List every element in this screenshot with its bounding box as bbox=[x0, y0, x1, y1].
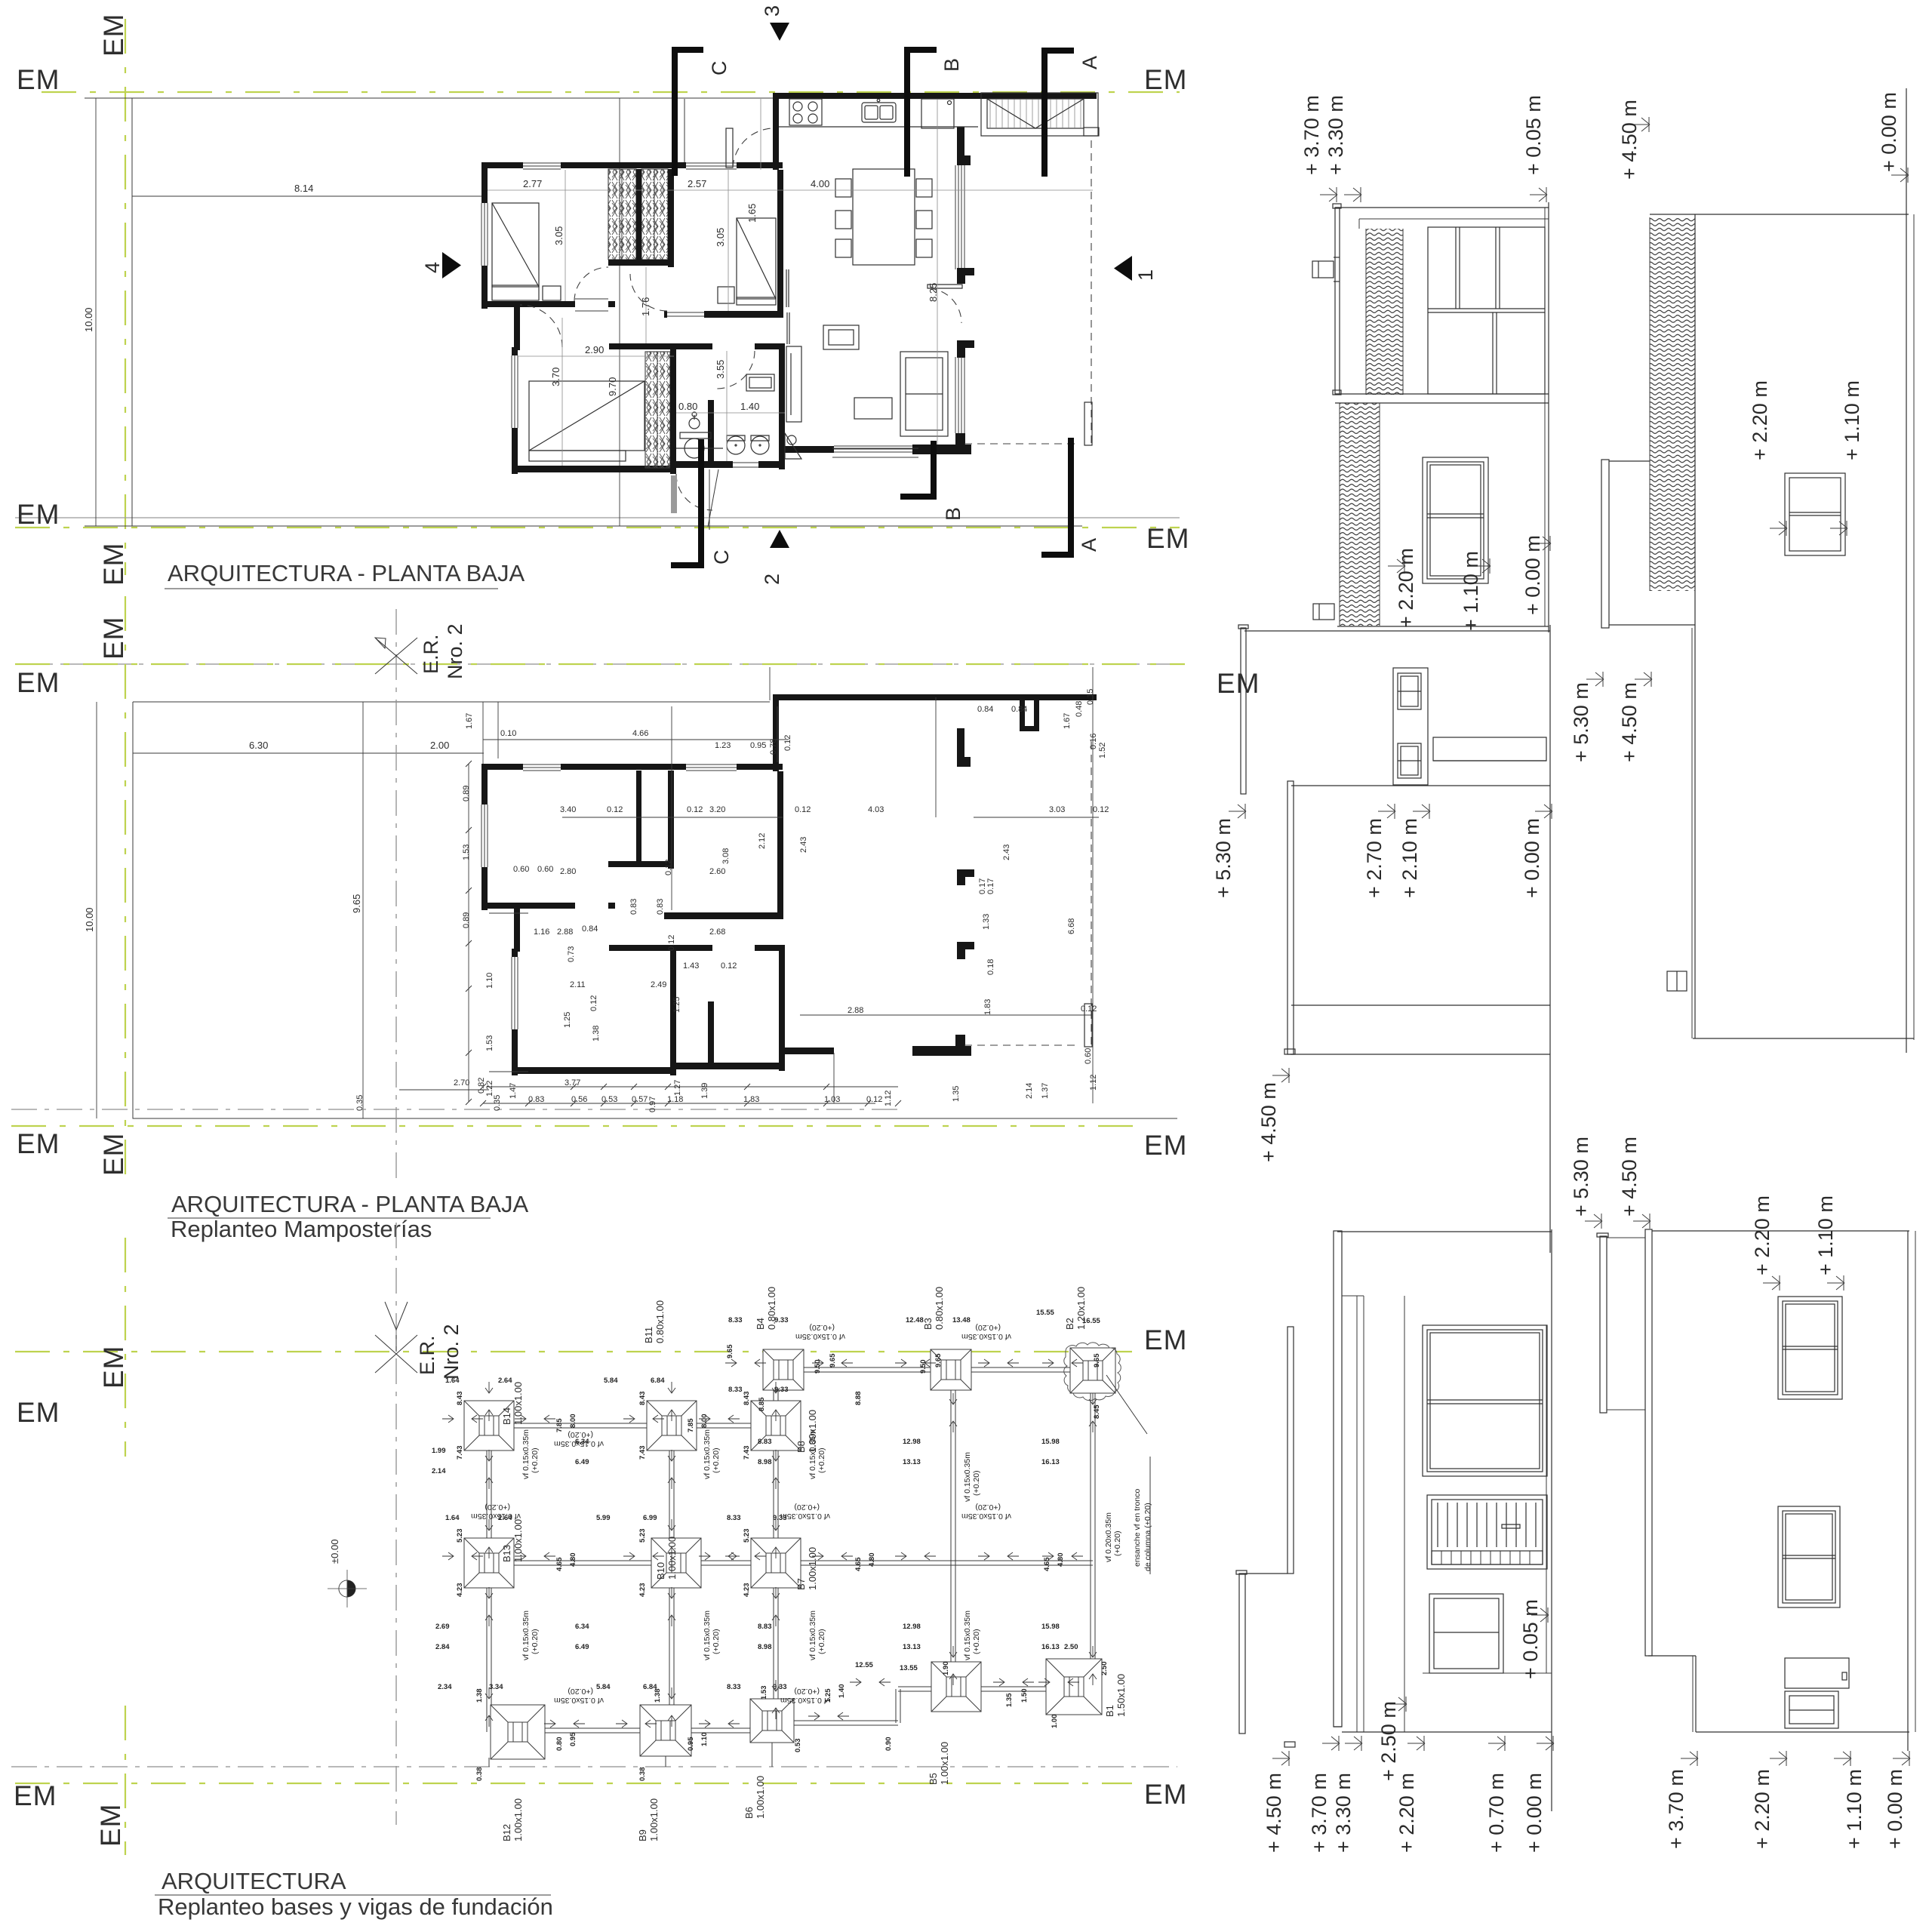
svg-text:+ 2.50 m: + 2.50 m bbox=[1377, 1701, 1400, 1781]
svg-text:8.14: 8.14 bbox=[294, 183, 313, 194]
level markers top bbox=[1320, 187, 1337, 202]
svg-text:9.65: 9.65 bbox=[934, 1353, 943, 1367]
footing B10 bbox=[651, 1538, 701, 1588]
deck dashed boundary bbox=[964, 443, 1079, 445]
upper window bbox=[1778, 1297, 1842, 1399]
svg-text:8.98: 8.98 bbox=[758, 1458, 772, 1466]
near end wall bbox=[1244, 630, 1550, 632]
bedroom3 top wall bbox=[609, 343, 676, 349]
laundry counter top-right bbox=[981, 93, 1099, 136]
svg-text:2.43: 2.43 bbox=[799, 837, 808, 853]
svg-text:1.00x1.00: 1.00x1.00 bbox=[666, 1537, 678, 1580]
svg-text:+ 0.05 m: + 0.05 m bbox=[1522, 95, 1545, 175]
dim 10.00 vertical bbox=[95, 98, 97, 526]
stacked windows bbox=[1393, 668, 1428, 785]
svg-text:8.83: 8.83 bbox=[758, 1623, 772, 1631]
kitchen door leaf + arc bbox=[726, 128, 773, 168]
svg-text:2.14: 2.14 bbox=[432, 1467, 446, 1475]
svg-text:4.80: 4.80 bbox=[569, 1553, 577, 1567]
svg-text:1.27: 1.27 bbox=[673, 1080, 682, 1096]
svg-text:B13: B13 bbox=[501, 1545, 512, 1562]
svg-text:EM: EM bbox=[95, 1804, 126, 1847]
svg-text:+ 4.50 m: + 4.50 m bbox=[1618, 682, 1641, 762]
svg-text:0.12: 0.12 bbox=[589, 995, 598, 1011]
svg-text:13.55: 13.55 bbox=[900, 1664, 918, 1672]
svg-text:B7: B7 bbox=[795, 1578, 807, 1590]
section 3 arrow bbox=[761, 5, 789, 41]
svg-text:8.88: 8.88 bbox=[854, 1392, 863, 1406]
svg-text:13.13: 13.13 bbox=[903, 1643, 921, 1651]
svg-text:7.43: 7.43 bbox=[638, 1446, 647, 1460]
svg-text:A: A bbox=[1078, 538, 1100, 552]
svg-text:8.43: 8.43 bbox=[743, 1392, 751, 1406]
svg-text:+ 3.30 m: + 3.30 m bbox=[1332, 1773, 1355, 1853]
EM line plan 3 top bbox=[15, 1324, 1188, 1428]
E.R. axis vertical bbox=[395, 609, 397, 1182]
svg-text:±0.00: ±0.00 bbox=[329, 1540, 340, 1564]
wardrobe bed3 bbox=[645, 352, 670, 468]
svg-text:+ 5.30 m: + 5.30 m bbox=[1570, 1137, 1592, 1217]
bed2 bottom wall bbox=[664, 311, 783, 318]
svg-text:C: C bbox=[708, 61, 731, 76]
living bottom wall bbox=[912, 445, 971, 454]
svg-text:2.90: 2.90 bbox=[585, 344, 604, 355]
svg-text:4.00: 4.00 bbox=[811, 178, 829, 189]
svg-text:E.R.: E.R. bbox=[416, 1335, 438, 1375]
E.R. Nro 2 cross bbox=[375, 638, 417, 674]
svg-text:0.83: 0.83 bbox=[629, 899, 638, 915]
svg-text:vf 0.15x0.35m: vf 0.15x0.35m bbox=[554, 1696, 604, 1705]
svg-text:EM: EM bbox=[17, 499, 60, 530]
svg-text:+ 4.50 m: + 4.50 m bbox=[1618, 100, 1641, 180]
far end wall bbox=[1693, 1038, 1914, 1039]
svg-text:0.89: 0.89 bbox=[462, 912, 471, 928]
E.R. axis vertical bbox=[395, 1223, 397, 1825]
levels bottom bbox=[1681, 1751, 1698, 1766]
svg-text:1.33: 1.33 bbox=[982, 914, 991, 930]
svg-text:1.40: 1.40 bbox=[838, 1684, 846, 1699]
window 2 (blind) bbox=[1427, 1495, 1547, 1569]
svg-text:vf 0.15x0.35m: vf 0.15x0.35m bbox=[961, 1512, 1011, 1521]
svg-text:+ 0.05 m: + 0.05 m bbox=[1519, 1599, 1542, 1679]
+5.30 parapet bbox=[1600, 1236, 1607, 1413]
roof edge single-story bbox=[1694, 214, 1696, 1038]
svg-text:vf 0.15x0.35m: vf 0.15x0.35m bbox=[961, 1332, 1011, 1341]
svg-text:ARQUITECTURA: ARQUITECTURA bbox=[162, 1868, 346, 1894]
roof +3.70 bbox=[1334, 1231, 1342, 1727]
svg-text:+ 2.20 m: + 2.20 m bbox=[1395, 1773, 1418, 1853]
svg-text:1.00x1.00: 1.00x1.00 bbox=[807, 1547, 818, 1590]
svg-text:+ 3.70 m: + 3.70 m bbox=[1665, 1769, 1687, 1849]
svg-text:0.12: 0.12 bbox=[607, 805, 623, 814]
svg-text:4.80: 4.80 bbox=[868, 1553, 876, 1567]
side wall bottom edge bbox=[1337, 626, 1549, 627]
svg-text:2.11: 2.11 bbox=[570, 980, 586, 989]
dining table bbox=[835, 169, 932, 265]
svg-text:+ 0.70 m: + 0.70 m bbox=[1485, 1773, 1508, 1853]
svg-text:+ 1.10 m: + 1.10 m bbox=[1460, 551, 1482, 631]
svg-text:vf 0.15x0.35m: vf 0.15x0.35m bbox=[963, 1452, 972, 1502]
svg-text:0.97: 0.97 bbox=[648, 1097, 657, 1112]
svg-text:8.85: 8.85 bbox=[758, 1397, 766, 1411]
svg-text:9.65: 9.65 bbox=[351, 894, 362, 913]
svg-text:B10: B10 bbox=[655, 1562, 666, 1580]
svg-text:1: 1 bbox=[1134, 269, 1157, 281]
svg-text:0.35: 0.35 bbox=[493, 1095, 502, 1111]
footing B14 bbox=[464, 1401, 514, 1451]
svg-text:+ 2.20 m: + 2.20 m bbox=[1751, 1195, 1774, 1275]
footing B8 bbox=[751, 1401, 801, 1451]
svg-text:16.55: 16.55 bbox=[1082, 1317, 1100, 1325]
near end wall bbox=[1652, 1230, 1909, 1232]
svg-text:EM: EM bbox=[1144, 1779, 1188, 1810]
svg-text:8.45: 8.45 bbox=[1093, 1404, 1101, 1419]
svg-text:vf 0.15x0.35m: vf 0.15x0.35m bbox=[471, 1512, 521, 1521]
svg-text:+ 2.70 m: + 2.70 m bbox=[1363, 818, 1386, 898]
bed 2 bbox=[718, 218, 776, 305]
svg-text:B6: B6 bbox=[743, 1807, 755, 1819]
footing B7 bbox=[751, 1538, 801, 1588]
canopy bar bbox=[1433, 737, 1546, 761]
dim 10.00 vertical bbox=[96, 702, 97, 1118]
end wall bbox=[1650, 214, 1909, 215]
svg-text:0.80: 0.80 bbox=[678, 401, 697, 412]
svg-text:0.82: 0.82 bbox=[477, 1078, 486, 1094]
svg-text:0.56: 0.56 bbox=[571, 1095, 587, 1104]
svg-text:0.84: 0.84 bbox=[1011, 705, 1027, 714]
svg-text:0.84: 0.84 bbox=[582, 924, 598, 934]
foundation vigas bbox=[489, 1423, 776, 1428]
bedroom3 left wall bbox=[512, 347, 518, 474]
roof slab inner line bbox=[1359, 218, 1549, 220]
svg-text:Replanteo Mamposterías: Replanteo Mamposterías bbox=[171, 1216, 432, 1242]
svg-text:3.03: 3.03 bbox=[1049, 805, 1065, 814]
EM line plan 2 bottom bbox=[11, 1126, 1188, 1176]
far end wall bbox=[1291, 1054, 1550, 1055]
svg-text:+ 4.50 m: + 4.50 m bbox=[1257, 1082, 1280, 1162]
svg-text:(+0.20): (+0.20) bbox=[568, 1687, 593, 1696]
svg-text:2.57: 2.57 bbox=[688, 178, 706, 189]
svg-text:1.12: 1.12 bbox=[1089, 1075, 1098, 1091]
svg-text:(+0.20): (+0.20) bbox=[817, 1629, 826, 1654]
bed2 right wall bbox=[777, 170, 783, 318]
svg-text:+ 2.10 m: + 2.10 m bbox=[1398, 818, 1421, 898]
far end wall bbox=[1696, 1731, 1909, 1733]
svg-text:2: 2 bbox=[761, 574, 783, 585]
svg-text:1.35: 1.35 bbox=[1005, 1693, 1014, 1707]
svg-text:+ 5.30 m: + 5.30 m bbox=[1212, 818, 1235, 898]
kitchen counter bbox=[779, 126, 978, 128]
svg-text:4: 4 bbox=[421, 262, 444, 273]
svg-text:B3: B3 bbox=[922, 1318, 934, 1330]
+4.50 roof bbox=[1645, 1229, 1652, 1656]
svg-text:0.12: 0.12 bbox=[783, 735, 792, 751]
svg-text:1.37: 1.37 bbox=[1041, 1083, 1050, 1099]
hall wall bed1 bottom bbox=[485, 301, 575, 307]
bed 1 bbox=[492, 203, 561, 300]
svg-text:vf 0.15x0.35m: vf 0.15x0.35m bbox=[521, 1611, 531, 1660]
svg-text:0.16: 0.16 bbox=[1089, 734, 1098, 749]
footing B13 bbox=[464, 1538, 514, 1588]
svg-text:1.12: 1.12 bbox=[884, 1091, 893, 1106]
svg-text:8.25: 8.25 bbox=[928, 283, 939, 302]
svg-text:1.40: 1.40 bbox=[740, 401, 759, 412]
svg-text:12.48: 12.48 bbox=[906, 1316, 924, 1324]
svg-text:6.99: 6.99 bbox=[643, 1514, 657, 1522]
svg-text:0.60: 0.60 bbox=[537, 865, 553, 874]
plan3 dim arrows bbox=[442, 1415, 454, 1423]
svg-text:0.73: 0.73 bbox=[567, 946, 576, 962]
svg-text:vf 0.15x0.35m: vf 0.15x0.35m bbox=[780, 1696, 830, 1705]
bath right wall bbox=[779, 343, 785, 469]
tall section edge bbox=[1291, 785, 1550, 786]
svg-text:0.12: 0.12 bbox=[687, 805, 703, 814]
svg-text:0.12: 0.12 bbox=[667, 935, 676, 951]
svg-text:1.38: 1.38 bbox=[654, 1689, 662, 1703]
svg-text:(+0.20): (+0.20) bbox=[975, 1503, 1001, 1512]
chimney bbox=[1667, 971, 1687, 991]
tv console bbox=[786, 346, 801, 422]
svg-text:2.68: 2.68 bbox=[709, 928, 725, 937]
floor +0.05 line bbox=[1546, 1325, 1547, 1673]
fridge bbox=[921, 99, 954, 128]
svg-text:13.13: 13.13 bbox=[903, 1458, 921, 1466]
near end wall bbox=[1337, 1231, 1552, 1232]
svg-text:+ 2.20 m: + 2.20 m bbox=[1751, 1769, 1774, 1849]
step wall hall-bed3 bbox=[514, 307, 520, 350]
axis line at house bottom bbox=[11, 1109, 898, 1110]
twin wc bbox=[727, 435, 769, 454]
svg-text:1.38: 1.38 bbox=[592, 1026, 601, 1041]
svg-text:6.84: 6.84 bbox=[651, 1377, 665, 1385]
corrugated band upper bbox=[1366, 229, 1403, 395]
svg-text:7.85: 7.85 bbox=[687, 1418, 695, 1432]
svg-text:Nro. 2: Nro. 2 bbox=[444, 623, 466, 679]
svg-text:vf 0.15x0.35m: vf 0.15x0.35m bbox=[703, 1429, 712, 1479]
svg-text:(+0.20): (+0.20) bbox=[485, 1503, 510, 1512]
window bedroom1 left bbox=[480, 203, 489, 266]
svg-text:1.25: 1.25 bbox=[672, 997, 681, 1013]
svg-text:0.18: 0.18 bbox=[986, 959, 995, 975]
sofa bbox=[900, 352, 948, 436]
svg-text:1.00x1.00: 1.00x1.00 bbox=[648, 1798, 660, 1841]
svg-text:6.68: 6.68 bbox=[1067, 918, 1076, 934]
svg-text:7.43: 7.43 bbox=[456, 1446, 464, 1460]
svg-text:EM: EM bbox=[17, 64, 60, 95]
EM line plan 3 bottom bbox=[14, 1779, 1188, 1847]
svg-text:2.70: 2.70 bbox=[454, 1078, 469, 1088]
svg-text:ensanche vf en tronco: ensanche vf en tronco bbox=[1133, 1489, 1142, 1567]
svg-text:9.65: 9.65 bbox=[726, 1344, 734, 1358]
svg-text:0.60: 0.60 bbox=[513, 865, 529, 874]
lot boundary bbox=[132, 98, 1082, 526]
+4.50 parapet bbox=[1287, 1327, 1294, 1574]
svg-text:1.83: 1.83 bbox=[983, 999, 992, 1015]
intermediate edge bbox=[1291, 1004, 1550, 1006]
footing B9 bbox=[640, 1705, 691, 1756]
svg-text:3.20: 3.20 bbox=[709, 805, 725, 814]
svg-text:+ 1.10 m: + 1.10 m bbox=[1843, 1769, 1866, 1849]
svg-text:0.95: 0.95 bbox=[750, 741, 766, 750]
svg-text:+ 4.50 m: + 4.50 m bbox=[1618, 1137, 1641, 1217]
svg-text:+ 1.10 m: + 1.10 m bbox=[1841, 380, 1863, 460]
footing B1 bbox=[1046, 1659, 1102, 1715]
svg-text:5.23: 5.23 bbox=[456, 1529, 464, 1543]
window bedroom3 left bbox=[510, 355, 520, 428]
svg-text:10.00: 10.00 bbox=[83, 307, 94, 332]
svg-text:B2: B2 bbox=[1064, 1318, 1075, 1330]
svg-text:0.17: 0.17 bbox=[986, 878, 995, 894]
svg-text:B1: B1 bbox=[1104, 1705, 1115, 1717]
svg-text:0.12: 0.12 bbox=[721, 961, 737, 971]
svg-text:4.23: 4.23 bbox=[638, 1583, 647, 1598]
+3.30 slab line bbox=[1357, 1296, 1364, 1732]
svg-text:EM: EM bbox=[1217, 668, 1260, 699]
svg-text:15.55: 15.55 bbox=[1036, 1309, 1054, 1317]
window 3 (small) bbox=[1429, 1594, 1503, 1673]
svg-text:0.80x1.00: 0.80x1.00 bbox=[934, 1287, 945, 1330]
svg-text:1.03: 1.03 bbox=[824, 1095, 840, 1104]
svg-text:1.99: 1.99 bbox=[432, 1447, 446, 1455]
svg-text:5.23: 5.23 bbox=[638, 1529, 647, 1543]
step to +3.70 bbox=[1648, 1655, 1696, 1657]
svg-text:4.23: 4.23 bbox=[743, 1583, 751, 1598]
stove bbox=[789, 99, 822, 125]
svg-text:0.15: 0.15 bbox=[1086, 689, 1095, 705]
roof +4.50 bbox=[1287, 781, 1294, 1054]
svg-text:1.50x1.00: 1.50x1.00 bbox=[1115, 1674, 1127, 1717]
svg-text:vf 0.20x0.35m: vf 0.20x0.35m bbox=[1104, 1512, 1113, 1562]
svg-text:1.47: 1.47 bbox=[509, 1083, 518, 1099]
svg-text:12.55: 12.55 bbox=[855, 1661, 873, 1669]
+5.30 parapet bbox=[1239, 1574, 1245, 1734]
svg-text:7.85: 7.85 bbox=[555, 1418, 564, 1432]
svg-text:12.98: 12.98 bbox=[903, 1623, 921, 1631]
bed 3 bbox=[529, 381, 645, 461]
svg-text:16.13: 16.13 bbox=[1041, 1643, 1060, 1651]
svg-text:1.83: 1.83 bbox=[743, 1095, 759, 1104]
svg-text:+ 3.70 m: + 3.70 m bbox=[1308, 1773, 1331, 1853]
shower drain circle bbox=[676, 438, 723, 458]
svg-text:EM: EM bbox=[98, 617, 129, 660]
dim 9.65 vertical bbox=[362, 702, 364, 1118]
svg-text:EM: EM bbox=[1144, 1324, 1188, 1355]
svg-text:6.30: 6.30 bbox=[249, 740, 268, 751]
svg-text:15.98: 15.98 bbox=[1041, 1623, 1060, 1631]
svg-text:0.78: 0.78 bbox=[769, 739, 778, 755]
svg-text:0.12: 0.12 bbox=[664, 860, 673, 875]
svg-text:B11: B11 bbox=[643, 1327, 654, 1343]
wardrobes bed1/bed2 bbox=[608, 169, 636, 260]
svg-text:9.65: 9.65 bbox=[829, 1353, 837, 1367]
svg-text:0.83: 0.83 bbox=[528, 1095, 544, 1104]
lot boundary bbox=[133, 702, 1177, 1118]
svg-text:+ 4.50 m: + 4.50 m bbox=[1263, 1773, 1285, 1853]
scupper upper bbox=[1312, 261, 1334, 278]
dims 6.30 / 2.00 bbox=[133, 752, 484, 754]
EM line plan 2 top bbox=[15, 617, 1260, 700]
svg-text:2.88: 2.88 bbox=[557, 928, 573, 937]
svg-text:3.34: 3.34 bbox=[489, 1683, 503, 1691]
svg-text:0.80: 0.80 bbox=[555, 1737, 564, 1752]
svg-text:1.53: 1.53 bbox=[485, 1035, 494, 1051]
window bbox=[1785, 473, 1845, 555]
svg-text:7.43: 7.43 bbox=[743, 1446, 751, 1460]
svg-text:Replanteo bases y vigas de fun: Replanteo bases y vigas de fundación bbox=[158, 1894, 553, 1920]
svg-text:12.98: 12.98 bbox=[903, 1438, 921, 1446]
section B top bbox=[904, 47, 963, 177]
plan1 room dimension lines bbox=[488, 99, 1093, 466]
svg-text:(+0.20): (+0.20) bbox=[794, 1503, 820, 1512]
svg-text:vf 0.15x0.35m: vf 0.15x0.35m bbox=[554, 1439, 604, 1448]
svg-text:0.57: 0.57 bbox=[632, 1095, 648, 1104]
svg-text:+ 0.00 m: + 0.00 m bbox=[1521, 818, 1543, 898]
svg-text:B4: B4 bbox=[755, 1318, 766, 1330]
svg-text:3.05: 3.05 bbox=[553, 226, 565, 245]
svg-text:EM: EM bbox=[17, 1397, 60, 1428]
svg-text:+ 2.20 m: + 2.20 m bbox=[1749, 380, 1771, 460]
svg-text:8.98: 8.98 bbox=[758, 1643, 772, 1651]
svg-text:EM: EM bbox=[1144, 64, 1188, 95]
svg-text:9.65: 9.65 bbox=[1093, 1353, 1101, 1367]
svg-text:4.80: 4.80 bbox=[1057, 1553, 1065, 1567]
footing B3 bbox=[931, 1349, 971, 1390]
svg-text:5.84: 5.84 bbox=[596, 1683, 611, 1691]
svg-text:1.16: 1.16 bbox=[534, 928, 549, 937]
svg-text:2.00: 2.00 bbox=[430, 740, 449, 751]
svg-text:1.65: 1.65 bbox=[746, 204, 758, 223]
svg-text:1.64: 1.64 bbox=[445, 1377, 460, 1385]
footing B11 bbox=[647, 1401, 697, 1451]
svg-text:vf 0.15x0.35m: vf 0.15x0.35m bbox=[808, 1429, 817, 1479]
svg-text:2.88: 2.88 bbox=[848, 1006, 863, 1015]
porch jog wall bbox=[773, 93, 779, 170]
scupper lower bbox=[1313, 604, 1334, 620]
svg-text:1.10: 1.10 bbox=[700, 1733, 709, 1747]
svg-text:(+0.20): (+0.20) bbox=[568, 1430, 593, 1439]
svg-text:1.90: 1.90 bbox=[942, 1662, 950, 1676]
svg-text:1.23: 1.23 bbox=[715, 741, 731, 750]
svg-text:(+0.20): (+0.20) bbox=[712, 1447, 721, 1473]
below-bath exterior door leaf bbox=[671, 475, 677, 513]
svg-text:0.53: 0.53 bbox=[794, 1739, 802, 1753]
svg-text:(+0.20): (+0.20) bbox=[712, 1629, 721, 1654]
svg-text:0.12: 0.12 bbox=[1093, 805, 1109, 814]
svg-text:1.67: 1.67 bbox=[465, 713, 474, 729]
svg-text:6.49: 6.49 bbox=[575, 1458, 589, 1466]
svg-text:(+0.20): (+0.20) bbox=[809, 1323, 835, 1332]
svg-text:2.69: 2.69 bbox=[435, 1623, 450, 1631]
svg-text:(+0.20): (+0.20) bbox=[817, 1447, 826, 1473]
section C bottom bbox=[671, 439, 733, 568]
svg-text:+ 5.30 m: + 5.30 m bbox=[1570, 682, 1592, 762]
svg-text:2.14: 2.14 bbox=[1025, 1083, 1034, 1099]
washer bath bbox=[746, 374, 774, 391]
section 1 arrow bbox=[1114, 256, 1157, 281]
svg-text:0.12: 0.12 bbox=[1081, 1004, 1097, 1014]
svg-text:8.43: 8.43 bbox=[456, 1392, 464, 1406]
+0.05 mid label bbox=[1531, 1607, 1549, 1623]
corner bbq living bbox=[785, 433, 801, 459]
living bottom window bbox=[832, 446, 918, 457]
svg-text:EM: EM bbox=[98, 1346, 129, 1389]
corrugated band lower bbox=[1340, 403, 1380, 626]
section C top bbox=[672, 47, 731, 176]
door arcs bedrooms bbox=[574, 267, 608, 301]
EM vertical line left bbox=[125, 19, 126, 575]
svg-text:+ 3.30 m: + 3.30 m bbox=[1324, 95, 1347, 175]
svg-text:1.67: 1.67 bbox=[1063, 713, 1072, 729]
